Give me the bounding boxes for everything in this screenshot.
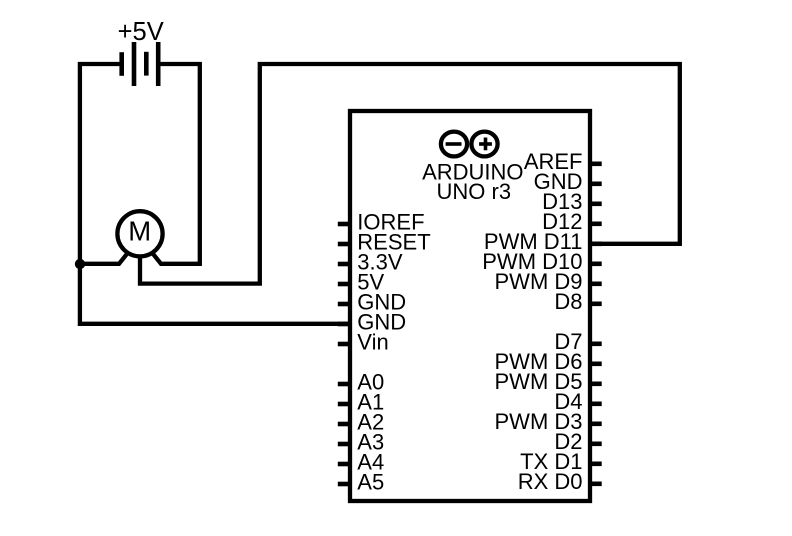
pin stub D9 (590, 282, 602, 287)
Arduino logo plus sign horizontal (479, 142, 492, 146)
pin stub D5 (590, 382, 602, 387)
svg-text:M: M (128, 216, 151, 247)
svg-text:+5V: +5V (118, 18, 164, 46)
pin stub D12 (590, 222, 602, 227)
pin stub Vin (338, 342, 350, 347)
pin stub D10 (590, 262, 602, 267)
battery BT1 plate short negative 1 (119, 52, 124, 76)
pin stub RESET (338, 242, 350, 247)
wire: junction to motor left terminal (80, 252, 128, 264)
battery BT1 plate short negative 2 (144, 52, 149, 76)
pin stub A0 (338, 382, 350, 387)
wire: +5V battery left lead to left vertical GND rail and bottom GND wire (80, 64, 350, 324)
battery BT1 plate tall positive 1 (132, 42, 137, 86)
pin stub A2 (338, 422, 350, 427)
pin stub AREF (590, 162, 602, 167)
svg-text:A5: A5 (357, 469, 384, 494)
battery BT1 plate tall positive 2 (156, 42, 161, 86)
pin stub D1 (590, 462, 602, 467)
pin stub D0 (590, 482, 602, 487)
pin stub GND left 1 (338, 302, 350, 307)
motor M1 circle (117, 211, 162, 256)
pin stub IOREF (338, 222, 350, 227)
pin stub A1 (338, 402, 350, 407)
pin stub GND left 2 (338, 322, 350, 327)
pin stub A4 (338, 462, 350, 467)
svg-text:D8: D8 (554, 289, 582, 314)
pin stub D4 (590, 402, 602, 407)
pin stub D7 (590, 342, 602, 347)
svg-text:Vin: Vin (357, 329, 388, 354)
pin stub 3.3V (338, 262, 350, 267)
pin stub D11 (590, 242, 602, 247)
pin stub D8 (590, 302, 602, 307)
Arduino logo minus circle (441, 132, 467, 157)
node junction dot (75, 259, 85, 269)
pin stub A5 (338, 482, 350, 487)
pin stub D2 (590, 442, 602, 447)
Arduino logo minus sign (446, 142, 462, 146)
pin stub D6 (590, 362, 602, 367)
svg-text:UNO r3: UNO r3 (437, 179, 512, 204)
wire: motor bottom terminal to Arduino D11 via top route (140, 64, 680, 284)
pin stub D13 (590, 202, 602, 207)
Arduino logo plus sign vertical (484, 138, 488, 151)
pin stub 5V (338, 282, 350, 287)
pin stub GND right (590, 182, 602, 187)
wire: battery positive to motor right terminal (152, 64, 200, 264)
pin stub A3 (338, 442, 350, 447)
svg-text:RX D0: RX D0 (518, 469, 583, 494)
Arduino logo plus circle (471, 132, 497, 157)
pin stub D3 (590, 422, 602, 427)
Arduino UNO U1 body (350, 111, 590, 501)
